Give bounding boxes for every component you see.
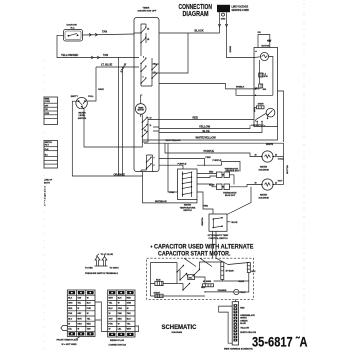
svg-text:START: START <box>258 103 265 106</box>
wire WHITE plug to motor <box>227 27 255 58</box>
wire white bus to valves <box>144 143 284 184</box>
svg-text:W: W <box>109 329 111 331</box>
svg-text:CW: CW <box>45 109 48 111</box>
line voltage service cord plug <box>217 5 230 21</box>
spin winding <box>259 73 268 78</box>
wire purple2 branch right <box>197 162 240 172</box>
wire plug right pin down <box>226 16 228 27</box>
svg-text:MOTOR: MOTOR <box>262 45 270 47</box>
connector bracket housing <box>219 306 233 343</box>
wire ON loop over motor <box>258 35 270 48</box>
svg-text:10: 10 <box>150 118 152 120</box>
schematic contact B <box>179 273 187 281</box>
legend table 2 <box>44 141 58 169</box>
svg-text:W: W <box>68 324 70 326</box>
wire TAN door switch to timer <box>83 34 135 35</box>
svg-text:4P MAIN: 4P MAIN <box>226 270 235 273</box>
schematic top rail <box>200 262 249 281</box>
timer contact 3 <box>140 57 146 64</box>
svg-text:ORG: ORG <box>77 324 82 326</box>
svg-text:WATER: WATER <box>78 111 86 114</box>
svg-text:THERMOSTAT: THERMOSTAT <box>223 192 237 195</box>
svg-text:WHT-YELLOW: WHT-YELLOW <box>166 140 182 142</box>
water temperature switch box <box>178 169 198 200</box>
svg-text:SHOWN RUN OFF: SHOWN RUN OFF <box>138 11 157 13</box>
svg-text:WATER: WATER <box>260 194 268 197</box>
wiring plug bottom terminal row <box>109 333 134 336</box>
svg-text:TAN: TAN <box>102 30 107 34</box>
svg-text:RED: RED <box>267 40 272 42</box>
start winding <box>154 292 164 298</box>
wire RED timer to motor <box>159 119 254 121</box>
svg-text:YELLOW/RED: YELLOW/RED <box>61 53 78 57</box>
schematic wires A <box>177 263 183 291</box>
svg-text:SWITCH: SWITCH <box>183 210 192 212</box>
run winding <box>155 280 163 286</box>
svg-text:BLUE: BLUE <box>240 323 246 325</box>
water level switch P <box>76 97 87 108</box>
svg-text:GRD: GRD <box>221 18 226 20</box>
svg-text:WHITE: WHITE <box>228 46 230 53</box>
svg-text:DOOR SW: DOOR SW <box>67 25 77 27</box>
svg-text:TAN: TAN <box>127 312 131 315</box>
svg-text:F-42: F-42 <box>45 148 49 151</box>
wire WH/BLK timer to motor <box>159 84 256 96</box>
svg-text:BOTH: BOTH <box>44 182 50 184</box>
wire hot right stub <box>273 184 283 186</box>
timer plate bottom terminal row <box>69 332 94 335</box>
wire pink left into switch <box>168 143 178 192</box>
svg-text:4P MAIN: 4P MAIN <box>203 280 212 283</box>
wiring plug top terminal row <box>109 291 134 294</box>
svg-text:W = NOT USED: W = NOT USED <box>62 344 78 346</box>
wire option right stub <box>227 221 231 223</box>
svg-text:W: W <box>77 329 79 331</box>
svg-text:21: 21 <box>275 182 277 184</box>
label WATER LEVEL SWITCH <box>78 111 87 120</box>
svg-text:BLU: BLU <box>68 318 73 320</box>
timer lower cluster spine <box>134 114 159 147</box>
thermostat blue dot <box>217 184 230 190</box>
svg-text:PRESSURE SWITCH TERMINALS: PRESSURE SWITCH TERMINALS <box>85 272 119 275</box>
svg-text:CAPACITOR START MOTOR.: CAPACITOR START MOTOR. <box>158 250 231 257</box>
connector wire labels <box>240 308 256 334</box>
svg-text:YELLOW: YELLOW <box>240 328 249 330</box>
svg-text:CONTROL SWITCH: CONTROL SWITCH <box>208 238 228 240</box>
svg-text:ORANGE DOT: ORANGE DOT <box>226 170 240 173</box>
wire motor left terminal <box>254 57 273 96</box>
svg-text:YELLOW: YELLOW <box>286 165 288 174</box>
wire water level bottom drop <box>82 107 134 147</box>
sol box <box>188 275 195 280</box>
thermostat orange dot <box>217 172 230 178</box>
wire BLACK plug to timer <box>159 27 220 33</box>
option switch contacts <box>213 217 223 228</box>
svg-text:BLK: BLK <box>118 298 123 300</box>
svg-text:GREEN/BLACK: GREEN/BLACK <box>240 314 255 317</box>
svg-text:YELLOW: YELLOW <box>199 125 211 129</box>
note CAPACITOR USED WITH ALTERNATE <box>151 244 254 258</box>
legend table 1 <box>44 97 58 125</box>
svg-text:PUR: PUR <box>87 308 92 310</box>
svg-text:MOTOR: MOTOR <box>138 110 145 112</box>
svg-text:FRONT TIMER PLATE: FRONT TIMER PLATE <box>57 339 79 342</box>
4P MAIN winding horizontal <box>203 280 214 287</box>
svg-text:RED: RED <box>193 116 199 120</box>
timer bottom cluster <box>141 155 153 172</box>
svg-text:RED: RED <box>201 287 206 289</box>
svg-text:PURPLE: PURPLE <box>204 149 215 153</box>
schematic contact C <box>182 283 190 291</box>
label WATER TEMPERATURE SWITCH <box>180 204 196 213</box>
svg-text:AUX: AUX <box>251 270 256 273</box>
svg-text:BLU: BLU <box>109 308 114 310</box>
svg-text:W: W <box>118 324 120 326</box>
timer contact 11 <box>146 157 156 163</box>
svg-text:GRAY: GRAY <box>98 88 105 91</box>
schematic contact A <box>176 265 184 273</box>
wire YELLOW <box>159 127 250 129</box>
svg-text:N.O.: N.O. <box>71 27 76 29</box>
svg-text:SPIN: SPIN <box>263 76 268 78</box>
wire option drops to schematic <box>213 231 217 258</box>
label OPTION AUTO TEMP CONTROL SWITCH <box>208 234 229 240</box>
wire PINK branch <box>159 159 205 167</box>
svg-text:61: 61 <box>154 64 156 66</box>
svg-text:FULL: FULL <box>88 96 94 98</box>
svg-text:RED: RED <box>240 308 245 310</box>
svg-text:ORG: ORG <box>68 303 73 305</box>
wire cold right stub <box>273 156 283 158</box>
svg-text:TO RED: TO RED <box>85 268 93 270</box>
temp switch internal contacts <box>182 172 192 198</box>
timer plate left arrow tag <box>61 326 68 331</box>
svg-text:SWITCH: SWITCH <box>78 118 87 120</box>
timer motor TM <box>135 104 146 115</box>
wire WHITE/YELLOW bus <box>143 127 278 141</box>
note LINE OF BOTH vertical <box>44 180 53 207</box>
svg-text:35-6817 ˜A: 35-6817 ˜A <box>252 334 308 349</box>
motor assembly box <box>254 48 278 127</box>
svg-text:BLU: BLU <box>127 318 132 320</box>
svg-text:AGI: AGI <box>263 88 267 91</box>
title CONNECTION DIAGRAM <box>179 2 213 18</box>
wire temp switch down to option <box>197 192 213 214</box>
wire prot right <box>239 281 249 292</box>
wire water level left to orange run <box>72 101 197 203</box>
svg-text:HOT: HOT <box>278 181 283 183</box>
wire gray vertical to water level switch <box>87 67 96 101</box>
wire LT.BLUE to timer <box>96 66 134 68</box>
timer contact 1 <box>140 27 150 34</box>
label LINE VOLTAGE SERVICE CORD <box>232 6 250 12</box>
front timer plate grid <box>67 290 95 337</box>
timer contact 9 <box>142 124 152 130</box>
schematic contact D <box>192 269 200 277</box>
svg-text:TAN: TAN <box>77 297 81 300</box>
timer contact 5 <box>140 77 146 85</box>
svg-text:WATER: WATER <box>184 204 192 207</box>
wire thermo1 out <box>230 175 235 185</box>
wire temp switch to thermostat 2 <box>197 184 217 187</box>
svg-text:COLD: COLD <box>278 159 285 161</box>
protector circle <box>234 289 246 294</box>
svg-text:PINK: PINK <box>206 157 212 159</box>
svg-text:BLUE: BLUE <box>239 281 245 283</box>
svg-text:WATER: WATER <box>260 166 268 169</box>
svg-text:W: W <box>118 303 120 305</box>
wire option diagonal to hot line <box>227 187 251 215</box>
timer contact 8 <box>142 117 152 123</box>
wire BLUE <box>159 127 262 133</box>
option auto temp control switch box <box>209 214 227 231</box>
svg-text:ORANGE: ORANGE <box>218 289 227 292</box>
wire bracket between grids <box>95 302 108 331</box>
svg-text:TAN: TAN <box>103 53 108 57</box>
wire crossover vertical A <box>118 58 120 177</box>
svg-text:OPTION AUTO TEMP: OPTION AUTO TEMP <box>208 234 229 237</box>
diagonal feeds entering dashed box <box>184 258 228 266</box>
wire PURPLE to cold valve <box>165 143 262 156</box>
svg-text:RED: RED <box>204 206 209 208</box>
page fold dotted line right <box>303 0 305 350</box>
page fold dotted line left <box>43 60 45 350</box>
svg-text:EMPTY: EMPTY <box>71 96 79 98</box>
svg-text:LEVEL: LEVEL <box>79 115 86 117</box>
svg-text:SERVICE CORD: SERVICE CORD <box>232 10 250 12</box>
svg-text:PNK: PNK <box>118 313 123 315</box>
svg-text:SOLENOID: SOLENOID <box>259 169 270 171</box>
timer plate cell text <box>68 297 91 331</box>
timer contact 6 <box>151 64 157 71</box>
pressure switch terminals icon <box>95 254 108 266</box>
start switch circle <box>266 108 275 117</box>
svg-text:TAN: TAN <box>87 328 91 331</box>
hot water solenoid V2 <box>261 179 274 190</box>
svg-text:YEL/RED: YEL/RED <box>201 218 203 227</box>
timer contact 10 <box>142 130 148 137</box>
wire plug left pin to black <box>219 16 221 27</box>
svg-text:LINE VOLTAGE: LINE VOLTAGE <box>232 6 249 9</box>
svg-text:LT. BLUE: LT. BLUE <box>101 63 112 67</box>
start winding <box>257 103 265 109</box>
svg-text:W: W <box>87 298 89 300</box>
door switch DS <box>64 30 83 42</box>
svg-text:CCW: CCW <box>45 113 50 115</box>
svg-text:WH/BLK: WH/BLK <box>236 87 245 89</box>
motor protector circle <box>255 51 268 61</box>
svg-text:WHT/BLUE: WHT/BLUE <box>155 201 167 203</box>
timer contact 7 <box>151 72 157 79</box>
svg-text:30: 30 <box>255 154 257 156</box>
svg-text:ORANGE: ORANGE <box>114 172 126 176</box>
wire thermo2 to hot valve <box>230 185 262 187</box>
svg-text:PURPLE: PURPLE <box>178 163 187 165</box>
wire crossover vertical B <box>122 67 124 176</box>
wiring plug right tab <box>135 326 139 332</box>
svg-text:WIRING PLUG: WIRING PLUG <box>110 340 124 342</box>
svg-text:DIAGRAM: DIAGRAM <box>183 9 209 18</box>
schematic left rail <box>151 263 206 297</box>
svg-text:DIAGRAM: DIAGRAM <box>172 331 183 334</box>
timer internal spine wires <box>134 24 188 86</box>
svg-text:TEMPERATURE: TEMPERATURE <box>180 206 196 209</box>
svg-text:3: 3 <box>143 77 144 79</box>
svg-text:W: W <box>109 313 111 315</box>
connector strip housing <box>232 302 238 345</box>
svg-text:WHITE/YELLOW: WHITE/YELLOW <box>196 136 217 140</box>
svg-text:W: W <box>127 308 129 310</box>
timer contact 12 <box>146 163 156 169</box>
svg-text:SOLENOID: SOLENOID <box>259 197 270 199</box>
svg-text:BLUE: BLUE <box>203 129 210 133</box>
wiring plug cell text <box>109 298 132 331</box>
svg-text:CODE: CODE <box>45 101 51 103</box>
svg-text:CONNECTOR DIA: CONNECTOR DIA <box>109 343 127 346</box>
svg-text:BLACK: BLACK <box>195 29 204 33</box>
svg-text:LINE OF: LINE OF <box>44 180 53 182</box>
timer plate top terminal row <box>69 291 94 294</box>
svg-text:RED: RED <box>209 172 214 174</box>
4P MAIN winding vertical <box>221 262 234 280</box>
svg-text:RED: RED <box>127 298 132 300</box>
svg-text:W: W <box>77 308 79 310</box>
wire temp switch to thermostat 1 <box>197 174 217 178</box>
svg-text:SCHEMATIC: SCHEMATIC <box>162 324 197 331</box>
svg-text:PUR: PUR <box>109 324 114 326</box>
start switch diagonal <box>255 107 266 121</box>
svg-text:PNK: PNK <box>68 313 73 315</box>
svg-text:TIMER: TIMER <box>143 8 150 10</box>
motor left edge terminals <box>255 88 257 90</box>
timer contact 4 <box>140 66 146 73</box>
wiring plug grid <box>108 290 135 337</box>
wire motor right to valve bus <box>278 91 284 142</box>
svg-text:GRN: GRN <box>127 303 132 305</box>
wire to prot <box>205 291 234 293</box>
timer contact 2 <box>140 37 150 44</box>
svg-text:WHITE: WHITE <box>266 144 274 146</box>
svg-text:ON: ON <box>258 32 262 34</box>
schematic dashed box <box>147 258 254 299</box>
svg-text:30: 30 <box>255 182 257 184</box>
svg-text:2: 2 <box>143 57 144 59</box>
svg-text:21: 21 <box>275 154 277 156</box>
svg-text:ORG: ORG <box>118 308 123 310</box>
aux winding <box>247 263 256 273</box>
wire sol leads <box>187 274 206 284</box>
wire PURPLE to temp switch <box>159 165 183 169</box>
svg-text:W: W <box>87 313 89 315</box>
wire door switch left leg down <box>57 35 134 57</box>
svg-text:+ CAPACITOR +: + CAPACITOR + <box>250 124 267 127</box>
svg-text:RED: RED <box>118 318 123 320</box>
svg-text:RED: RED <box>87 324 92 326</box>
svg-text:TO GRAY: TO GRAY <box>110 267 120 270</box>
svg-text:11: 11 <box>150 125 152 127</box>
connector strip pins <box>234 304 238 341</box>
svg-text:BLUE DOT: BLUE DOT <box>225 195 236 197</box>
motor bottom terminals <box>257 121 258 122</box>
svg-text:12: 12 <box>144 130 146 132</box>
svg-text:BLU: BLU <box>87 303 92 305</box>
svg-text:62: 62 <box>154 72 156 74</box>
run winding leads <box>151 282 178 284</box>
connector strip feed wire <box>234 299 236 301</box>
cold water solenoid V1 <box>261 151 274 162</box>
timer motor feed wire <box>141 95 143 117</box>
svg-text:TO LT. BLUE: TO LT. BLUE <box>101 254 114 256</box>
svg-text:BLUE: BLUE <box>232 222 238 224</box>
svg-text:BLK: BLK <box>68 298 73 300</box>
svg-text:RED: RED <box>68 308 73 310</box>
agitate winding <box>255 77 267 91</box>
timer box T <box>134 18 159 172</box>
svg-text:PURPLE: PURPLE <box>213 160 222 162</box>
